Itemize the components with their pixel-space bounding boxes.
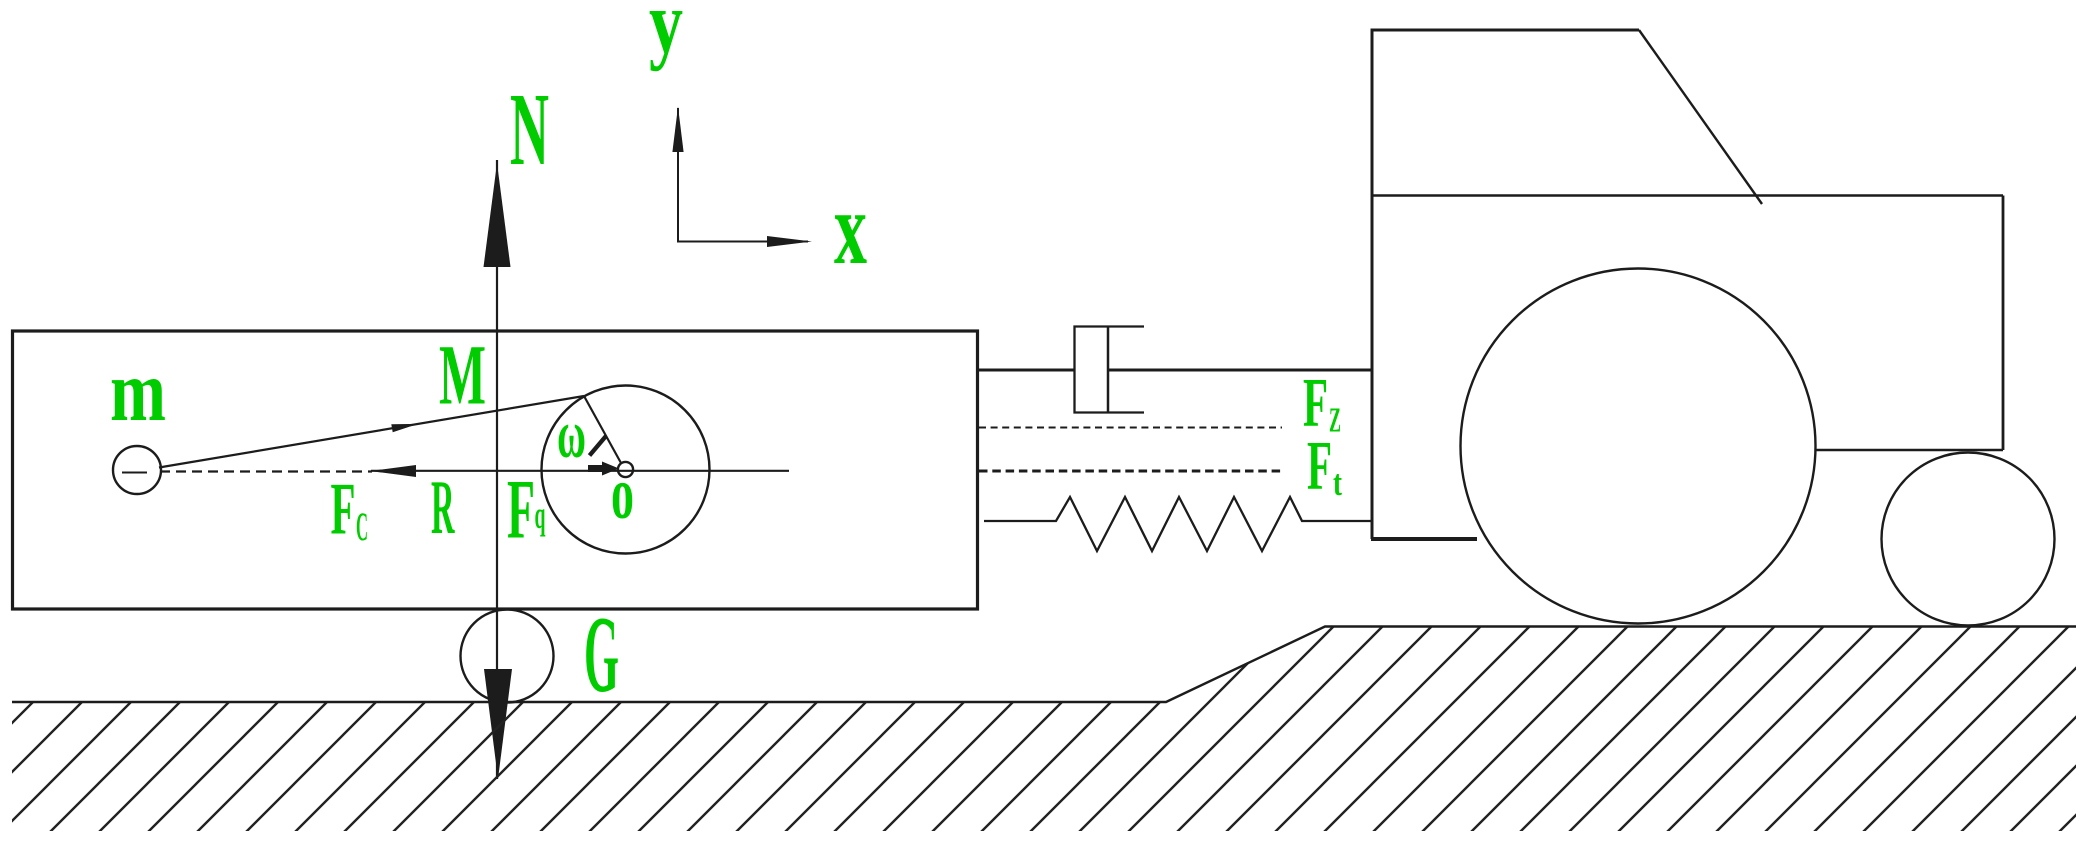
svg-text:t: t	[1333, 463, 1342, 504]
damper rod left	[978, 369, 1075, 372]
svg-text:x: x	[834, 171, 867, 286]
cab slant	[1639, 30, 1762, 204]
ground surface line	[12, 627, 2076, 703]
F_t dashed line	[979, 470, 1281, 473]
rear wheel	[1461, 269, 1816, 624]
svg-text:q: q	[535, 494, 546, 537]
tractor left edge and cab top	[1372, 30, 1639, 539]
tractor right edge	[2002, 196, 2005, 451]
tractor bottom edge	[1371, 537, 1477, 541]
roller body rectangle	[13, 331, 978, 609]
dashed line from m	[160, 470, 372, 472]
rod from m to drum	[159, 396, 584, 468]
svg-text:G: G	[584, 594, 619, 715]
rod arrow head	[391, 424, 418, 432]
coordinate axes	[678, 108, 808, 242]
F_C arrow head	[370, 465, 416, 477]
radial line	[584, 396, 621, 463]
vertical N-G force line	[496, 160, 498, 779]
x axis arrow head	[767, 236, 812, 247]
svg-text:m: m	[110, 342, 166, 439]
tick in m circle	[122, 472, 147, 474]
G arrow head	[484, 669, 512, 779]
tractor body top	[1372, 194, 2003, 196]
svg-text:ω: ω	[557, 396, 586, 472]
svg-text:y: y	[649, 0, 683, 72]
omega rotation arrow	[590, 436, 607, 456]
svg-text:M: M	[439, 327, 486, 423]
svg-text:F: F	[507, 463, 535, 557]
svg-text:R: R	[431, 464, 455, 550]
svg-text:F: F	[331, 469, 356, 551]
horizontal axis line through o	[371, 470, 789, 472]
damper piston	[1107, 327, 1110, 412]
y axis arrow head	[672, 107, 683, 153]
tractor notch line	[1816, 449, 2003, 451]
G wheel circle	[461, 610, 554, 703]
ground hatch fill	[12, 627, 2076, 832]
spring	[984, 497, 1372, 551]
svg-text:F: F	[1307, 428, 1332, 505]
svg-text:o: o	[611, 453, 634, 535]
F_Z dashed line	[979, 426, 1282, 428]
center o circle	[618, 462, 633, 477]
drum circle	[542, 386, 710, 554]
damper rod right	[1108, 369, 1372, 372]
damper cup	[1075, 327, 1145, 413]
front wheel	[1882, 453, 2055, 626]
eccentric mass m circle	[113, 446, 161, 494]
svg-text:N: N	[510, 72, 549, 187]
svg-text:C: C	[356, 504, 368, 549]
N arrow head	[484, 163, 511, 267]
